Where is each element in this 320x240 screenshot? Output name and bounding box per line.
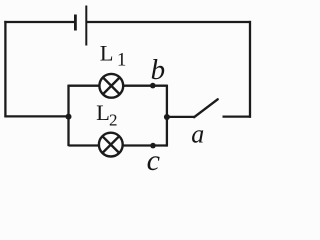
wire: top branch horizontal (69, 85, 167, 87)
svg-text:L: L (100, 40, 114, 65)
wire: top right segment (battery positive lead) (86, 21, 251, 23)
battery B tall thin plate (positive) (85, 6, 87, 46)
svg-text:2: 2 (109, 110, 118, 129)
wire: left side vertical (4, 21, 6, 118)
node b dot (150, 83, 156, 89)
wire: parallel block right rail (166, 85, 168, 147)
svg-text:a: a (191, 119, 204, 148)
lamp L2 (circle with X) (99, 133, 123, 157)
node c dot (150, 143, 156, 149)
junction node (right rail to switch wire) (164, 114, 170, 120)
junction node (left, joins mid wire to left rail) (66, 114, 72, 120)
svg-text:1: 1 (117, 50, 127, 71)
wire: bottom branch horizontal (69, 144, 167, 146)
wire: top left segment (battery negative lead) (4, 21, 75, 23)
wire: mid-left horizontal to parallel junction (5, 115, 68, 117)
svg-text:c: c (147, 144, 160, 173)
battery B short thick plate (negative) (74, 15, 77, 31)
svg-text:L: L (96, 100, 110, 125)
wire: switch feed horizontal (167, 116, 194, 118)
switch S fixed contact line (223, 115, 252, 117)
svg-text:b: b (151, 54, 166, 86)
lamp L1 (circle with X) (99, 74, 123, 98)
wire: right side vertical (249, 21, 251, 118)
wire: parallel block left rail (67, 85, 69, 147)
switch S blade (open) (194, 99, 218, 117)
